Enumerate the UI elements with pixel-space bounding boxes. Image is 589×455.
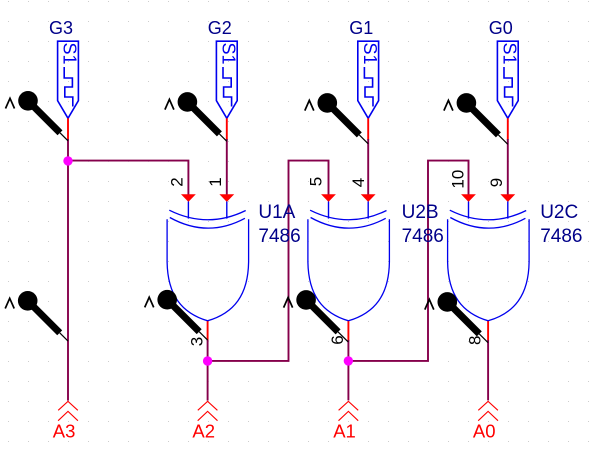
svg-text:G3: G3	[49, 18, 73, 38]
wire junction down to terminal A1	[347, 361, 349, 401]
svg-text:U2B: U2B	[402, 202, 439, 223]
xor gate U1A (7486) body	[167, 210, 249, 321]
generator G3 (pulse source S1)	[58, 41, 79, 118]
svg-text:G0: G0	[489, 18, 513, 38]
wire junction down to terminal A3	[67, 161, 69, 401]
voltage probe marker on net G2	[165, 92, 227, 141]
wire junction to U1A pin 2	[68, 161, 188, 195]
wire G1 to U2B pin 4	[367, 139, 369, 195]
svg-text:A0: A0	[473, 420, 496, 441]
svg-text:1: 1	[206, 177, 225, 186]
svg-text:A1: A1	[333, 420, 356, 441]
input pin arrow U2C pin 9	[500, 194, 515, 202]
svg-text:U2C: U2C	[540, 202, 578, 223]
wire G0 to U2C pin 9	[507, 139, 509, 195]
pin stub of G0 (red)	[507, 118, 509, 140]
wire U1A output to junction	[207, 340, 209, 361]
pin stub of G3 (red)	[67, 118, 69, 140]
input pin arrow U1A pin 1	[219, 194, 234, 202]
svg-text:7486: 7486	[258, 226, 300, 247]
pin stub U2C pin 9 (blue)	[507, 202, 509, 219]
voltage probe marker on U2C output	[425, 292, 488, 343]
pin stub of G1 (red)	[367, 118, 369, 140]
svg-text:S1: S1	[360, 43, 380, 65]
voltage probe marker on net G0	[444, 93, 508, 144]
svg-text:S1: S1	[500, 43, 520, 65]
input pin arrow U2C pin 10	[461, 194, 476, 202]
output terminal A3	[58, 401, 78, 420]
U1A output pin stub (red)	[207, 321, 209, 341]
generator G0 (pulse source S1)	[497, 41, 518, 118]
wire G3 to junction	[67, 139, 69, 161]
svg-text:3: 3	[187, 337, 206, 346]
svg-text:A3: A3	[53, 420, 76, 441]
wire U2B output to junction	[347, 340, 349, 361]
svg-text:2: 2	[167, 177, 186, 186]
svg-text:10: 10	[448, 170, 467, 189]
voltage probe marker on U2B output	[284, 290, 349, 342]
xor gate U2C (7486) body	[448, 210, 529, 321]
input pin arrow U2B pin 4	[361, 194, 376, 202]
wire G2 to U1A pin 1	[226, 139, 228, 195]
pin stub U1A pin 1 (blue)	[226, 202, 228, 219]
svg-text:5: 5	[307, 177, 326, 186]
output terminal A1	[339, 401, 359, 420]
pin stub of G2 (red)	[226, 118, 228, 140]
voltage probe marker on U1A output	[145, 290, 208, 340]
wire U2C output to terminal A0	[487, 340, 489, 401]
xor gate U2B (7486) body	[308, 210, 390, 321]
U2C output pin stub (red)	[487, 321, 489, 341]
svg-text:S1: S1	[60, 43, 80, 65]
svg-text:S1: S1	[219, 43, 239, 65]
pin stub U1A pin 2 (blue)	[187, 202, 189, 219]
output terminal A0	[478, 401, 498, 420]
wire U2B output to U2C pin 10	[348, 161, 468, 361]
wire U1A output to U2B pin 5	[208, 161, 329, 361]
voltage probe marker on net G3	[6, 91, 69, 141]
svg-text:7486: 7486	[540, 226, 582, 247]
svg-text:9: 9	[487, 178, 506, 187]
voltage probe marker on net A3	[5, 291, 68, 341]
svg-text:6: 6	[328, 335, 347, 344]
pin stub U2C pin 10 (blue)	[468, 202, 470, 219]
junction node A1	[344, 356, 353, 365]
pin stub U2B pin 4 (blue)	[367, 202, 369, 219]
svg-text:U1A: U1A	[258, 202, 295, 223]
U2B output pin stub (red)	[347, 321, 349, 341]
svg-text:7486: 7486	[402, 226, 444, 247]
svg-text:A2: A2	[192, 420, 215, 441]
svg-text:G2: G2	[208, 18, 232, 38]
output terminal A2	[198, 401, 218, 420]
input pin arrow U1A pin 2	[181, 194, 196, 202]
junction node A2	[203, 356, 212, 365]
svg-text:G1: G1	[349, 18, 373, 38]
wire junction down to terminal A2	[207, 361, 209, 401]
input pin arrow U2B pin 5	[321, 194, 336, 202]
generator G2 (pulse source S1)	[216, 41, 237, 118]
pin stub U2B pin 5 (blue)	[328, 202, 330, 219]
svg-text:4: 4	[349, 178, 368, 187]
generator G1 (pulse source S1)	[358, 41, 379, 118]
junction node G3/A3	[63, 156, 72, 165]
voltage probe marker on net G1	[305, 93, 368, 144]
